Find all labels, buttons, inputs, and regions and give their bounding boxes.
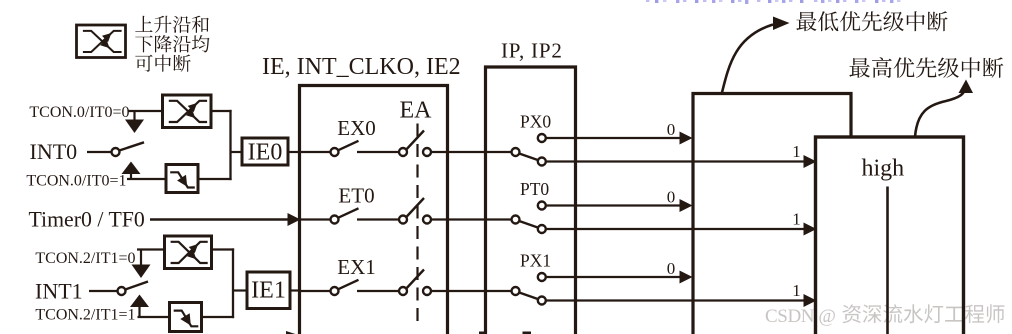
wire both-edge out bbox=[211, 110, 232, 112]
stub to down arrow (INT1) bbox=[140, 250, 142, 267]
both-edge detector box (INT0) bbox=[163, 95, 212, 128]
IP selector lever bbox=[519, 221, 539, 228]
stub from up arrow (INT1) bbox=[138, 307, 140, 318]
wire priority-1 to high box bbox=[546, 228, 805, 230]
down arrow to IT0=0 throw bbox=[125, 120, 144, 134]
svg-text:ET0: ET0 bbox=[338, 184, 374, 208]
EX1 switch contact bbox=[331, 287, 339, 295]
svg-text:1: 1 bbox=[792, 210, 801, 229]
svg-text:PX0: PX0 bbox=[520, 112, 551, 132]
wire join to IE1 bbox=[233, 289, 247, 291]
EX0 switch contact bbox=[331, 148, 339, 156]
EA switch left contact bbox=[399, 148, 407, 156]
wire INT1 to switch bbox=[89, 290, 118, 292]
EX1 switch lever bbox=[338, 280, 358, 289]
ET0 switch contact bbox=[331, 216, 339, 224]
wire box1-left to EX1 switch bbox=[301, 290, 331, 292]
wire Timer0/TF0 to register box bbox=[150, 218, 289, 220]
up arrow to IT1=1 throw bbox=[130, 295, 149, 308]
arrowhead into low box bbox=[680, 271, 693, 284]
wire priority-1 to high box bbox=[546, 160, 805, 162]
wire ET0 to EA switch bbox=[357, 218, 399, 220]
curved arrow to lowest priority label bbox=[722, 25, 773, 93]
svg-text:TCON.0/IT0=0: TCON.0/IT0=0 bbox=[29, 104, 129, 121]
IP selector input contact bbox=[512, 216, 520, 224]
svg-text:IE0: IE0 bbox=[248, 140, 283, 166]
cropped purple watermark fragments (top edge) bbox=[646, 0, 900, 4]
EA switch right contact bbox=[423, 216, 431, 224]
IP selector lever bbox=[519, 153, 539, 160]
wire both-edge out (INT1) bbox=[212, 248, 235, 250]
arrowhead Timer0 into register box bbox=[288, 213, 301, 226]
wire TCON.0/IT0=1 label to falling-edge box bbox=[127, 178, 166, 180]
wire IE0 to register box bbox=[288, 151, 301, 153]
INT1 switch contact bbox=[118, 287, 126, 295]
cropped glyph tops at bottom edge bbox=[479, 332, 487, 334]
IP selector lower contact bbox=[538, 158, 546, 166]
arrowhead into high box bbox=[804, 223, 817, 236]
wire join to IE0 bbox=[231, 151, 243, 153]
EA switch lever bbox=[406, 198, 424, 217]
ET0 switch lever bbox=[338, 208, 358, 217]
arrowhead into low box bbox=[680, 132, 693, 145]
wire box1-left to ET0 switch bbox=[301, 218, 331, 220]
wire priority-0 to low box bbox=[546, 204, 681, 206]
svg-text:PX1: PX1 bbox=[520, 251, 551, 271]
IP selector input contact bbox=[512, 148, 520, 156]
wire priority-1 to high box bbox=[546, 299, 805, 301]
EA switch right contact bbox=[423, 287, 431, 295]
svg-text:0: 0 bbox=[667, 120, 676, 139]
wire EA to IP selector bbox=[431, 218, 512, 220]
join vertical (INT0 detectors) bbox=[229, 110, 231, 180]
svg-text:IP, IP2: IP, IP2 bbox=[501, 39, 563, 63]
INT0 switch contact bbox=[112, 148, 120, 156]
IP selector lever bbox=[519, 292, 539, 299]
wire falling-edge out bbox=[198, 178, 232, 180]
wire EA to IP selector bbox=[431, 290, 512, 292]
flag box IE0 bbox=[242, 138, 288, 165]
EA switch left contact bbox=[399, 216, 407, 224]
wire TCON.2 label to both-edge box bbox=[137, 248, 165, 250]
svg-text:Timer0 / TF0: Timer0 / TF0 bbox=[29, 208, 145, 232]
svg-text:TCON.2/IT1=0: TCON.2/IT1=0 bbox=[35, 250, 135, 267]
svg-text:INT0: INT0 bbox=[30, 139, 78, 164]
svg-text:0: 0 bbox=[667, 259, 676, 278]
IP selector upper contact bbox=[538, 202, 546, 210]
up arrow to IT0=1 throw bbox=[122, 162, 141, 175]
svg-text:IE, INT_CLKO, IE2: IE, INT_CLKO, IE2 bbox=[262, 54, 461, 80]
svg-text:TCON.2/IT1=1: TCON.2/IT1=1 bbox=[35, 307, 135, 324]
EA switch lever bbox=[406, 270, 424, 289]
legend text line3 可中断 bbox=[135, 55, 190, 72]
cropped arrowhead of hidden row (bottom edge) bbox=[286, 331, 300, 334]
EX0 switch lever bbox=[338, 141, 358, 150]
arrowhead into high box bbox=[804, 155, 817, 168]
wire EX0 to EA switch bbox=[357, 151, 399, 153]
wire falling-edge out (INT1) bbox=[202, 316, 235, 318]
wire TCON.2/IT1=1 label to falling-edge box bbox=[138, 316, 170, 318]
INT1 switch lever bbox=[125, 282, 148, 290]
svg-text:0: 0 bbox=[667, 188, 676, 207]
IP selector input contact bbox=[512, 287, 520, 295]
wire EX1 to EA switch bbox=[357, 290, 399, 292]
IP selector upper contact bbox=[538, 273, 546, 281]
IP selector lower contact bbox=[538, 225, 546, 233]
svg-text:CSDN @: CSDN @ bbox=[765, 306, 836, 327]
svg-text:EX0: EX0 bbox=[337, 116, 376, 140]
flag box IE1 bbox=[247, 272, 290, 309]
falling-edge detector box (INT1) bbox=[170, 303, 202, 332]
EA master-enable dashed line bbox=[416, 124, 418, 323]
register box IE INT_CLKO IE2 bbox=[300, 86, 448, 334]
arrowhead lowest priority bbox=[773, 17, 790, 31]
svg-text:high: high bbox=[862, 156, 905, 182]
EA switch lever bbox=[406, 131, 424, 150]
curved arrow to highest priority label bbox=[915, 88, 966, 137]
stub from up arrow bbox=[130, 174, 132, 180]
label 最低优先级中断 bbox=[796, 11, 947, 31]
svg-text:1: 1 bbox=[792, 142, 801, 161]
wire IE1 to register box bbox=[290, 289, 301, 291]
svg-text:TCON.0/IT0=1: TCON.0/IT0=1 bbox=[26, 173, 126, 190]
label 最高优先级中断 bbox=[849, 57, 1003, 78]
arrowhead into high box bbox=[804, 294, 817, 307]
wire INT0 to switch bbox=[87, 151, 112, 153]
internal line in high box bbox=[886, 187, 889, 334]
svg-text:EA: EA bbox=[400, 98, 433, 124]
down arrow to IT1=0 throw bbox=[132, 265, 151, 279]
IP selector upper contact bbox=[538, 134, 546, 142]
IP selector lower contact bbox=[538, 297, 546, 305]
priority box (low) bbox=[693, 94, 851, 334]
svg-text:EX1: EX1 bbox=[337, 255, 376, 279]
wire box1-left to EX0 switch bbox=[301, 151, 331, 153]
register box IP IP2 bbox=[486, 67, 576, 334]
svg-text:1: 1 bbox=[792, 281, 801, 300]
arrowhead highest priority bbox=[959, 80, 974, 94]
INT0 switch lever bbox=[119, 142, 144, 150]
legend text line2 下降沿均 bbox=[135, 35, 209, 52]
legend both-edge-trigger symbol box bbox=[77, 25, 126, 58]
join vertical (INT1 detectors) bbox=[232, 248, 234, 318]
wire priority-0 to low box bbox=[546, 276, 681, 278]
svg-text:PT0: PT0 bbox=[520, 179, 549, 199]
svg-text:IE1: IE1 bbox=[251, 278, 286, 304]
EA switch right contact bbox=[423, 148, 431, 156]
arrowhead into low box bbox=[680, 199, 693, 212]
legend text line1 上升沿和 bbox=[135, 16, 209, 33]
svg-text:INT1: INT1 bbox=[35, 279, 83, 304]
priority box (high) bbox=[816, 137, 964, 334]
wire EA to IP selector bbox=[431, 151, 512, 153]
EA switch left contact bbox=[399, 287, 407, 295]
both-edge detector box (INT1) bbox=[165, 236, 212, 269]
falling-edge detector box (INT0) bbox=[166, 165, 198, 193]
wire priority-0 to low box bbox=[546, 137, 681, 139]
wire TCON.0 label to both-edge box bbox=[128, 110, 163, 112]
stub to down arrow bbox=[133, 111, 135, 121]
